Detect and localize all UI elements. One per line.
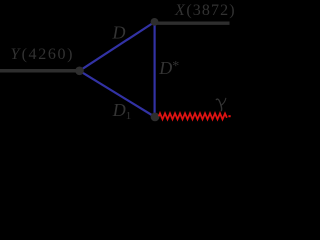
label gamma	[216, 98, 226, 110]
svg-text:D: D	[112, 22, 126, 42]
propagator D* (vertical blue line)	[154, 22, 156, 117]
vertex left (Y D D1)	[75, 67, 84, 76]
svg-text:Y(4260): Y(4260)	[11, 46, 75, 63]
vertex top (X D D*)	[151, 18, 159, 26]
photon line end dash	[228, 115, 230, 117]
photon gamma wavy line	[159, 113, 227, 119]
propagator D1 (lower blue line)	[80, 71, 156, 117]
vertex bottom (D1 D* gamma)	[151, 113, 160, 122]
wire X(3872) external line	[155, 22, 230, 25]
wire Y(4260) external line	[0, 69, 79, 73]
propagator D (upper blue line)	[80, 22, 155, 71]
svg-text:X(3872): X(3872)	[174, 2, 236, 19]
